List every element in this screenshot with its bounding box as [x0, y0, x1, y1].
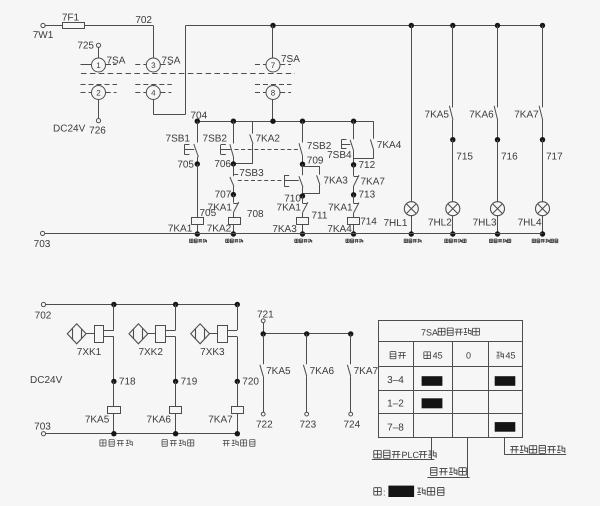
svg-text:7HL4: 7HL4 — [518, 218, 542, 229]
svg-text:7KA2: 7KA2 — [207, 224, 232, 235]
svg-text:722: 722 — [256, 420, 273, 431]
svg-text:7KA1: 7KA1 — [328, 202, 353, 213]
svg-text:4: 4 — [151, 89, 156, 98]
svg-text:7SB2: 7SB2 — [203, 134, 228, 145]
svg-text:702: 702 — [35, 311, 52, 322]
svg-text:7W1: 7W1 — [33, 30, 54, 41]
svg-text:7HL2: 7HL2 — [428, 218, 452, 229]
svg-text:7F1: 7F1 — [62, 13, 80, 24]
svg-text:45: 45 — [433, 351, 443, 361]
svg-text:709: 709 — [307, 156, 324, 167]
svg-text:2: 2 — [96, 89, 101, 98]
svg-text:7SA: 7SA — [281, 54, 300, 65]
svg-text:7–8: 7–8 — [387, 422, 404, 433]
svg-text:7KA7: 7KA7 — [361, 176, 386, 187]
svg-text:7XK1: 7XK1 — [77, 347, 102, 358]
svg-text:7KA2: 7KA2 — [256, 133, 281, 144]
svg-text:7XK3: 7XK3 — [200, 347, 225, 358]
svg-text:PLC: PLC — [402, 450, 420, 460]
svg-text:8: 8 — [271, 89, 276, 98]
svg-text:7SA: 7SA — [421, 327, 438, 337]
svg-text:721: 721 — [257, 309, 274, 320]
svg-text:725: 725 — [77, 41, 94, 52]
svg-text:708: 708 — [247, 209, 264, 220]
svg-text:706: 706 — [214, 159, 231, 170]
svg-text:45: 45 — [506, 351, 516, 361]
svg-text:7KA7: 7KA7 — [354, 366, 379, 377]
svg-text:707: 707 — [215, 189, 232, 200]
svg-text:713: 713 — [359, 190, 376, 201]
svg-text:7KA1: 7KA1 — [168, 224, 193, 235]
svg-text:7HL3: 7HL3 — [473, 218, 497, 229]
svg-text:7: 7 — [271, 61, 276, 70]
svg-text:719: 719 — [181, 377, 198, 388]
svg-text:7KA7: 7KA7 — [208, 415, 233, 426]
svg-text:DC24V: DC24V — [53, 124, 86, 135]
svg-text:724: 724 — [344, 420, 361, 431]
svg-text:715: 715 — [456, 152, 473, 163]
svg-text:7KA5: 7KA5 — [425, 110, 450, 121]
svg-text:702: 702 — [135, 15, 152, 26]
svg-text:DC24V: DC24V — [30, 375, 63, 386]
svg-text:711: 711 — [312, 211, 328, 222]
svg-text:7XK2: 7XK2 — [138, 347, 163, 358]
svg-text:703: 703 — [34, 421, 51, 432]
svg-text::: : — [383, 488, 386, 498]
svg-text:712: 712 — [359, 160, 376, 171]
svg-text:7KA6: 7KA6 — [310, 366, 335, 377]
svg-text:714: 714 — [360, 216, 377, 227]
svg-text:7KA6: 7KA6 — [469, 110, 494, 121]
svg-text:1–2: 1–2 — [387, 398, 404, 409]
svg-text:716: 716 — [501, 152, 518, 163]
svg-text:7KA4: 7KA4 — [377, 140, 402, 151]
svg-text:3: 3 — [151, 61, 156, 70]
svg-text:7KA6: 7KA6 — [147, 415, 172, 426]
svg-text:703: 703 — [34, 239, 51, 250]
svg-text:7KA5: 7KA5 — [85, 415, 110, 426]
svg-text:7SB3: 7SB3 — [239, 168, 264, 179]
svg-text:7KA1: 7KA1 — [277, 203, 302, 214]
svg-text:705: 705 — [177, 159, 194, 170]
svg-text:717: 717 — [546, 152, 563, 163]
svg-text:0: 0 — [466, 351, 471, 361]
svg-text:7KA3: 7KA3 — [323, 176, 348, 187]
svg-text:1: 1 — [96, 61, 101, 70]
svg-text:720: 720 — [242, 377, 259, 388]
svg-text:7SB4: 7SB4 — [327, 150, 352, 161]
svg-text:718: 718 — [119, 377, 136, 388]
svg-text:723: 723 — [300, 420, 317, 431]
svg-text:7KA1: 7KA1 — [208, 202, 233, 213]
svg-text:726: 726 — [89, 126, 106, 137]
svg-text:7KA5: 7KA5 — [266, 366, 291, 377]
svg-text:7SB1: 7SB1 — [166, 133, 191, 144]
svg-text:3–4: 3–4 — [387, 375, 404, 386]
svg-text:7KA7: 7KA7 — [514, 110, 539, 121]
svg-text:7HL1: 7HL1 — [383, 218, 407, 229]
